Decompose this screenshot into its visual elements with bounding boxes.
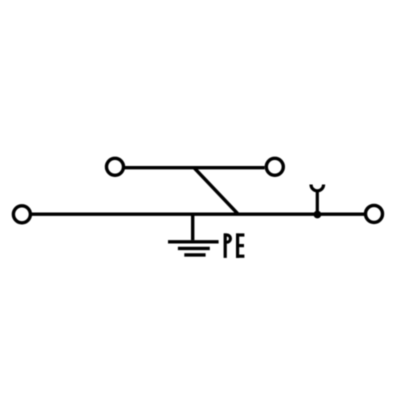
terminal circle X1 (top-left)	[107, 158, 124, 175]
junction (filled dot on bottom wire)	[314, 211, 322, 219]
terminal circle X3 (bottom-left)	[13, 206, 30, 223]
wire (bottom row, between bottom terminals)	[31, 212, 366, 215]
terminal circle X4 (bottom-right)	[366, 205, 383, 222]
ground (PE earth symbol, three bars)	[168, 242, 219, 255]
wire (ground stem from bottom row down to earth symbol)	[191, 214, 194, 240]
test tap symbol (cup on stem)	[311, 185, 324, 215]
wire (diagonal jumper from top row to bottom row)	[194, 168, 238, 215]
wire (top row, between top terminals)	[124, 166, 265, 169]
terminal circle X2 (top-right)	[266, 158, 283, 175]
label PE (net name)	[224, 233, 244, 258]
